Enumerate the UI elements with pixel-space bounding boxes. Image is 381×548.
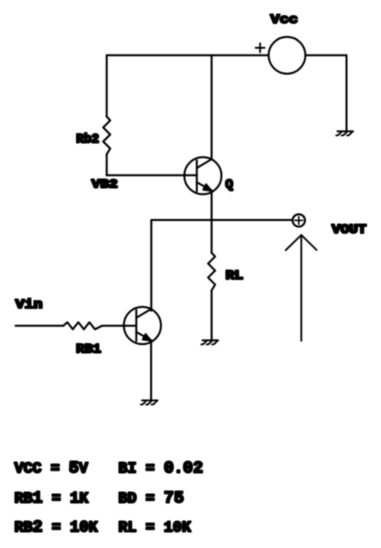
- resistor RB1: [63, 322, 102, 329]
- svg-text:Vcc: Vcc: [270, 12, 298, 27]
- wire: left branch from rail down to Rb2: [106, 55, 108, 116]
- svg-text:RL = 10K: RL = 10K: [118, 519, 191, 537]
- plus polarity mark of VCC source: [256, 43, 265, 52]
- svg-text:RB1: RB1: [76, 342, 101, 357]
- wire: collector of Q up to Vcc rail: [211, 55, 213, 159]
- svg-text:RB2 = 10K: RB2 = 10K: [14, 519, 98, 538]
- resistor Rb2: [103, 117, 110, 155]
- svg-text:RL: RL: [226, 268, 244, 283]
- svg-text:VOUT: VOUT: [332, 223, 367, 237]
- wire: Rb2 bottom to VB2 corner: [106, 154, 108, 175]
- wire: Vcc rail right segment: [305, 54, 346, 56]
- transistor Q2 (input NPN): [124, 307, 161, 344]
- svg-text:VB2: VB2: [92, 177, 118, 191]
- svg-text:Vin: Vin: [15, 297, 42, 312]
- svg-text:Rb2: Rb2: [76, 132, 99, 146]
- wire: VB2 node horizontal to base of Q: [107, 174, 197, 176]
- svg-text:Q: Q: [225, 177, 233, 192]
- svg-text:BI = 0.02: BI = 0.02: [118, 459, 203, 478]
- wire: RL bottom to ground: [211, 290, 213, 340]
- svg-text:BD = 75: BD = 75: [118, 489, 184, 508]
- wire: Vin input lead: [16, 325, 64, 327]
- ground (right of Vcc source): [336, 131, 353, 135]
- wire: Vcc rail left segment: [107, 54, 269, 56]
- wire: right drop to ground: [346, 55, 348, 131]
- svg-text:VCC = 5V: VCC = 5V: [14, 459, 89, 478]
- VOUT reference arrow: [286, 235, 317, 341]
- resistor RL: [208, 253, 215, 291]
- voltage source VCC (circle): [269, 37, 306, 74]
- transistor Q (NPN): [184, 157, 221, 194]
- wire: VOUT node down to collector of input transistor: [150, 220, 152, 311]
- ground (below RL): [201, 340, 218, 344]
- wire: emitter of Q down to RL: [211, 191, 213, 253]
- svg-text:RB1 = 1K: RB1 = 1K: [14, 489, 89, 508]
- wire: VOUT node horizontal: [151, 219, 292, 221]
- wire: RB1 to base of input transistor: [102, 325, 136, 327]
- node VOUT (circled plus terminal): [293, 214, 305, 226]
- wire: emitter of input transistor to ground: [150, 340, 152, 400]
- ground (below input transistor): [141, 400, 158, 404]
